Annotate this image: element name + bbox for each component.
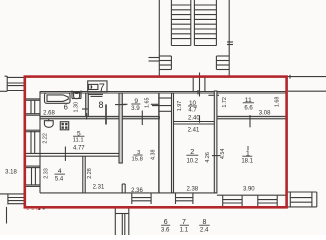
svg-text:3.9: 3.9 bbox=[131, 105, 140, 112]
bottom window A bbox=[132, 193, 151, 204]
red text marks below boundary bbox=[27, 209, 38, 210]
kitchen door tick bbox=[64, 147, 66, 161]
room 9 dim ticks bbox=[122, 103, 159, 105]
staircase left flight bbox=[171, 0, 190, 46]
svg-text:3.6: 3.6 bbox=[161, 226, 170, 233]
svg-text:2.4: 2.4 bbox=[200, 226, 209, 233]
svg-text:7: 7 bbox=[99, 82, 105, 94]
room 4 right wall bbox=[83, 156, 85, 193]
room 11 / room 1 left wall bbox=[214, 91, 217, 193]
bottom window D bbox=[223, 196, 242, 207]
wall between hall and room 9 / room 3 left wall bbox=[119, 93, 122, 163]
bottom wall interior face right section bbox=[217, 194, 287, 196]
staircase right outer wall bbox=[228, 0, 230, 76]
svg-text:4.38: 4.38 bbox=[151, 149, 157, 160]
top interior wall band bbox=[40, 92, 287, 94]
top-left exterior ladder bbox=[0, 76, 25, 91]
svg-text:2.38: 2.38 bbox=[186, 187, 198, 193]
staircase right wall ticks bbox=[227, 42, 233, 45]
left wall interior face bbox=[39, 91, 41, 193]
room 10 right door tick bbox=[208, 94, 219, 96]
toilet bbox=[44, 119, 53, 127]
room 10 bottom dim tick bbox=[199, 115, 201, 123]
tick right of red corner bbox=[289, 75, 291, 79]
stove bbox=[60, 122, 68, 130]
svg-text:2: 2 bbox=[190, 147, 194, 156]
svg-text:15.8: 15.8 bbox=[132, 156, 143, 162]
staircase right flight bbox=[194, 0, 216, 46]
bottom wall interior face left section bbox=[40, 192, 217, 194]
svg-text:1.30: 1.30 bbox=[74, 102, 80, 113]
room 2 right wall dim tick bbox=[212, 155, 221, 157]
bathroom right wall bbox=[86, 93, 89, 116]
red apartment boundary bbox=[25, 77, 287, 208]
staircase right landing window bbox=[216, 56, 229, 70]
door tick bathroom wall bottom bbox=[86, 113, 88, 120]
sink in room 7 bbox=[89, 84, 98, 89]
svg-text:4.26: 4.26 bbox=[205, 152, 211, 163]
svg-text:1.97: 1.97 bbox=[177, 101, 183, 112]
svg-text:3.18: 3.18 bbox=[5, 170, 17, 176]
svg-text:2.33: 2.33 bbox=[43, 168, 49, 179]
svg-text:6.6: 6.6 bbox=[244, 106, 253, 112]
dark mark below boundary bbox=[38, 208, 40, 210]
svg-text:6: 6 bbox=[64, 103, 68, 112]
kitchen bottom wall bbox=[26, 153, 123, 156]
svg-text:8: 8 bbox=[98, 100, 103, 110]
svg-text:5.4: 5.4 bbox=[55, 176, 64, 182]
hall partition stub bbox=[105, 104, 107, 124]
svg-text:3.90: 3.90 bbox=[243, 186, 255, 192]
room 11 bottom dim tick bbox=[249, 115, 251, 127]
svg-text:1.1: 1.1 bbox=[180, 226, 189, 233]
svg-text:2.36: 2.36 bbox=[131, 188, 143, 194]
svg-text:2.28: 2.28 bbox=[87, 168, 93, 179]
bathtub bbox=[45, 93, 71, 103]
bathroom door tick bbox=[82, 108, 88, 110]
closet room 7 box bbox=[87, 81, 107, 97]
tick on hall wall bbox=[115, 104, 126, 106]
left window W2 bbox=[26, 130, 40, 153]
bottom window B bbox=[176, 193, 193, 204]
door tick room 3 top wall bbox=[141, 111, 143, 126]
svg-text:2.41: 2.41 bbox=[188, 127, 200, 133]
svg-text:18.1: 18.1 bbox=[241, 159, 253, 165]
staircase left door ticks bbox=[149, 58, 160, 62]
room 10 bottom wall bbox=[174, 122, 217, 125]
bottom-left exterior corner bbox=[6, 207, 8, 224]
room 11 bottom wall band bbox=[217, 116, 287, 118]
room 10 top door tick bbox=[197, 90, 199, 95]
svg-text:11.1: 11.1 bbox=[73, 138, 84, 144]
svg-text:4.7: 4.7 bbox=[188, 108, 197, 114]
entrance porch below boundary bbox=[115, 208, 129, 235]
room 1 dim tick bbox=[247, 146, 249, 150]
svg-text:1.68: 1.68 bbox=[275, 97, 281, 108]
bottom window E bbox=[258, 196, 277, 207]
left window W1 bbox=[26, 99, 40, 115]
room 9 right wall bbox=[158, 93, 160, 193]
room 2 left wall bbox=[172, 93, 174, 193]
bottom-left exterior ladder bbox=[0, 194, 25, 205]
interior face line top-right bbox=[288, 90, 326, 92]
svg-text:2.22: 2.22 bbox=[42, 133, 48, 144]
svg-text:1.65: 1.65 bbox=[145, 97, 151, 108]
svg-text:1.72: 1.72 bbox=[222, 97, 228, 108]
svg-text:4.77: 4.77 bbox=[73, 146, 85, 152]
hall bottom wall band bbox=[40, 116, 159, 118]
svg-text:2.31: 2.31 bbox=[93, 185, 105, 191]
svg-text:2.40: 2.40 bbox=[188, 116, 200, 122]
bottom wall vent jamb bbox=[121, 184, 123, 193]
svg-text:10.2: 10.2 bbox=[186, 159, 198, 165]
exterior wall line top-right of boundary bbox=[287, 76, 326, 78]
staircase left outer wall bbox=[158, 0, 160, 76]
svg-text:4.54: 4.54 bbox=[220, 149, 226, 160]
svg-text:2.68: 2.68 bbox=[43, 111, 55, 117]
staircase left landing window bbox=[159, 56, 171, 70]
shaft shelves bbox=[152, 98, 172, 111]
left window W3 bbox=[26, 166, 40, 186]
bottom-right exterior wall band bbox=[287, 192, 317, 207]
entrance corridor walls from landing bbox=[193, 73, 205, 97]
bathroom sink bbox=[72, 91, 81, 99]
svg-text:3.08: 3.08 bbox=[259, 110, 271, 116]
